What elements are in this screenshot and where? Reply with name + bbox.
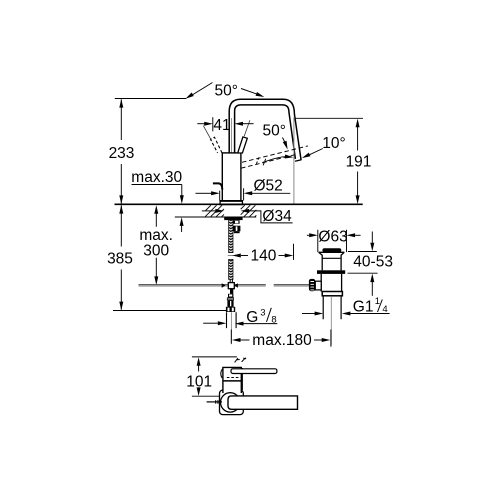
- bottom view: lever bar: [231, 369, 277, 374]
- dim 191: vertical line with arrows: [357, 124, 359, 198]
- mounting washer under deck: [224, 217, 242, 220]
- faucet axis line (lower): [230, 312, 232, 344]
- deck bottom line: [175, 216, 256, 218]
- dim G3/8: leader underline with arrow: [244, 323, 278, 325]
- supply pipe G3/8: [227, 312, 237, 328]
- bottom view: pop-up pin: [207, 401, 222, 403]
- drain body below flange: [321, 274, 341, 292]
- svg-text:101: 101: [186, 373, 212, 390]
- dim 385: bottom extension line: [113, 310, 227, 312]
- dim O34: leader and label frame: [249, 211, 293, 223]
- svg-text:191: 191: [346, 154, 372, 171]
- dim 101: vertical line with arrows: [198, 364, 200, 391]
- svg-text:max.30: max.30: [131, 169, 182, 186]
- supply nut: [226, 307, 235, 312]
- drain knurled knob (left): [309, 279, 315, 291]
- svg-text:3: 3: [260, 308, 265, 319]
- svg-text:Ø63: Ø63: [318, 228, 347, 245]
- svg-text:Ø52: Ø52: [254, 178, 283, 195]
- svg-text:385: 385: [107, 251, 133, 268]
- dim max.30: lower arrow under deck bottom: [180, 217, 184, 226]
- dim 40-53: upper extension line and arrow: [348, 251, 377, 253]
- aerator dashed axis (upper): [242, 146, 308, 162]
- svg-text:max.180: max.180: [252, 332, 312, 349]
- dim 233: vertical line with arrows: [120, 99, 122, 204]
- dim 385: vertical line with arrows: [120, 205, 122, 310]
- bottom view: escutcheon plate: [220, 390, 244, 415]
- deck top line: [115, 203, 363, 205]
- lever dashed (tilted left): [211, 137, 223, 153]
- svg-text:233: 233: [109, 145, 135, 162]
- svg-text:1: 1: [375, 296, 380, 307]
- lever solid (tilted right): [238, 137, 248, 153]
- drain knob stem: [315, 281, 321, 290]
- deck hatching left of hole: [205, 205, 224, 216]
- lever axis extension (right): [244, 120, 250, 136]
- dim 50: right leader with arrow: [241, 89, 258, 95]
- threaded mounting stud (upper): [229, 220, 233, 253]
- svg-text:300: 300: [143, 242, 169, 259]
- bottom view: dashed cartridge line: [227, 377, 239, 379]
- dim G3/8: left arrow: [203, 322, 218, 324]
- dim 140: arrows and label: [232, 254, 241, 258]
- threaded stud (lower): [229, 259, 233, 279]
- bottom view: body seam line: [223, 380, 241, 382]
- linkage clamp triangle left: [222, 283, 226, 288]
- pop-up linkage rod (horizontal, double line): [139, 283, 310, 285]
- dim G1 1/4: left arrow: [302, 313, 315, 315]
- dim 140: right extension line: [293, 244, 295, 260]
- leader from label down to dashed axis: [283, 138, 286, 144]
- drain outlet pipe: [323, 296, 341, 319]
- faucet centre axis line (upper): [231, 118, 233, 201]
- aerator dashed joint: [256, 156, 266, 165]
- spout tip vertical reference extension line: [293, 117, 295, 204]
- drain clamping flange (dark): [317, 270, 345, 274]
- drain plug cap (dark dome): [322, 248, 341, 252]
- dim max.180: extension lines: [231, 330, 331, 347]
- bottom view: 101 top extension line: [192, 356, 237, 358]
- spout outline: [229, 99, 301, 161]
- svg-text:50°: 50°: [263, 123, 286, 140]
- svg-text:140: 140: [251, 247, 277, 264]
- svg-text:40-53: 40-53: [353, 254, 393, 271]
- dim 40-53: lower extension line and arrow: [348, 272, 378, 274]
- svg-text:10°: 10°: [322, 135, 345, 152]
- bottom view: left swing arc: [221, 369, 223, 378]
- angle arc with arrow onto spout leg: [263, 157, 288, 163]
- dim 41: left extension bar: [212, 117, 214, 131]
- drain collar under cap: [319, 251, 345, 253]
- bottom view: lever tip marks: [235, 358, 240, 362]
- bottom view: body: [223, 367, 241, 392]
- pivot fitting: [228, 294, 233, 298]
- faucet body: [222, 153, 241, 201]
- dim 233: top extension line: [115, 98, 187, 100]
- deck hatching right of hole: [241, 205, 257, 217]
- drain neck seam: [323, 257, 341, 259]
- dim max.300: vertical line with arrows: [155, 212, 157, 279]
- rod stub below linkage block: [230, 289, 233, 294]
- rod stub above linkage block: [230, 279, 232, 282]
- bottom view: extra right edge line: [242, 368, 244, 390]
- svg-text:G: G: [246, 309, 258, 326]
- dim O63: arrows: [307, 234, 309, 236]
- bottom view: spout base circle: [221, 393, 240, 412]
- drain axis line: [330, 296, 332, 345]
- dim O34: arrows at hole edges: [202, 210, 216, 212]
- dim 41: arrows and label: [197, 123, 204, 125]
- bottom view: spout arm: [228, 396, 298, 409]
- dim 191: top extension line: [295, 117, 363, 119]
- svg-text:8: 8: [271, 315, 276, 326]
- dim max.180: arrows and label: [232, 338, 241, 342]
- linkage block: [228, 283, 234, 289]
- svg-text:41: 41: [213, 117, 230, 134]
- dim 10: leader with arrow: [309, 149, 323, 156]
- dim max.30: leader down to deck top: [181, 185, 183, 197]
- aerator dashed axis (lower): [241, 154, 297, 168]
- drain bottom nut band: [322, 292, 342, 296]
- lever axis extension (left): [203, 126, 212, 142]
- svg-text:50°: 50°: [215, 83, 238, 100]
- pop-up pull-rod hook on body left: [213, 183, 222, 189]
- supply connection block: [227, 300, 233, 307]
- rod break tick: [228, 254, 234, 256]
- linkage clamp triangle right: [234, 283, 238, 288]
- dim 50: left leader with arrow: [191, 83, 213, 97]
- base flange: [220, 201, 242, 205]
- dim O63: extension lines: [318, 230, 347, 252]
- flexible hose fitting: [233, 220, 240, 224]
- dim O52: arrows: [196, 192, 212, 194]
- dim G1 1/4: leader with arrow: [350, 313, 390, 315]
- svg-text:Ø34: Ø34: [262, 208, 292, 225]
- bottom view: 101 bottom extension line: [192, 395, 222, 397]
- dim O52: extension ticks: [220, 188, 244, 200]
